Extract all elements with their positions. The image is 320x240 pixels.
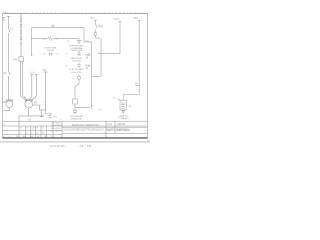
svg-text:1 B: 1 B [87,144,91,148]
svg-text:M: M [36,128,38,130]
svg-text:VALVOLA DI: VALVOLA DI [71,57,83,60]
svg-text:OFF MECC: OFF MECC [51,123,62,125]
svg-text:COMANDO: COMANDO [118,117,129,120]
svg-text:X1.6: X1.6 [133,17,139,20]
svg-text:BG: BG [30,136,33,138]
svg-text:DISCESA: DISCESA [72,59,81,62]
svg-text:MANUALE OPERATIVO: MANUALE OPERATIVO [72,124,99,127]
svg-text:KM: KM [14,58,18,61]
svg-text:TEL 03512: TEL 03512 [51,128,62,130]
svg-text:PE: PE [43,69,47,72]
svg-text:PRESSOSTATO: PRESSOSTATO [69,44,84,47]
svg-text:Cod: Cod [107,123,112,126]
svg-text:ELETTROVALV: ELETTROVALV [69,68,84,71]
svg-text:VIA ROMA 1: VIA ROMA 1 [51,124,63,127]
svg-text:U V: U V [30,71,34,74]
svg-text:FINECORSA: FINECORSA [45,46,57,49]
svg-text:PRESSIONE: PRESSIONE [71,50,83,52]
svg-text:10: 10 [62,144,65,148]
svg-text:X1.4: X1.4 [114,18,120,21]
svg-text:BG ITALY: BG ITALY [51,130,60,133]
svg-text:IDRAULICA: IDRAULICA [71,117,82,120]
svg-text:8 1 5 W 5: 8 1 5 W 5 [50,144,62,148]
svg-text:DI BLOCCO: DI BLOCCO [71,72,82,74]
svg-text:SQ2: SQ2 [98,25,103,28]
svg-text:400400: 400400 [117,123,126,126]
svg-text:0A65 00100: 0A65 00100 [117,129,131,132]
svg-text:- 2 8: - 2 8 [78,144,84,148]
svg-text:QS: QS [3,72,7,75]
svg-text:SALITA: SALITA [47,49,54,52]
